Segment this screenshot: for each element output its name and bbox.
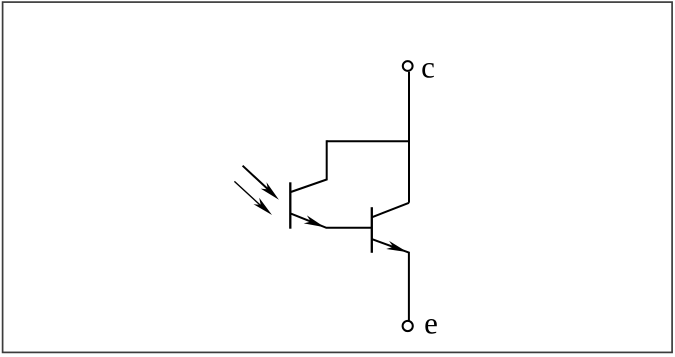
svg-text:c: c [421, 49, 435, 84]
svg-text:e: e [424, 306, 438, 341]
